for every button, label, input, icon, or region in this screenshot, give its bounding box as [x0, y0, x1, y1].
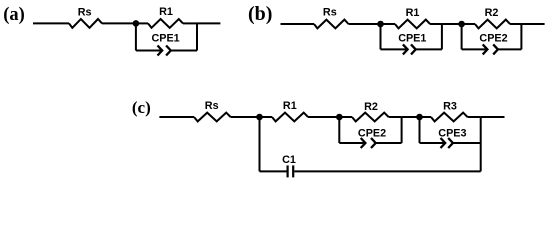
resistor R1 [395, 20, 430, 29]
CPE CPE1 [158, 46, 171, 56]
svg-text:R3: R3 [443, 101, 457, 113]
wire [339, 142, 363, 144]
node junction [416, 114, 423, 121]
wire [402, 116, 420, 118]
wire [381, 23, 396, 25]
svg-text:Rs: Rs [323, 7, 337, 19]
wire [349, 23, 381, 25]
svg-text:CPE1: CPE1 [398, 32, 426, 44]
capacitor C1 [287, 165, 289, 177]
resistor R1 [148, 19, 183, 28]
wire [339, 116, 352, 118]
svg-text:Rs: Rs [78, 7, 92, 19]
CPE CPE2 [361, 138, 376, 148]
wire [480, 117, 482, 171]
wire [136, 22, 148, 24]
wire [338, 117, 340, 143]
wire [521, 23, 544, 25]
wire [462, 48, 486, 50]
svg-text:Rs: Rs [205, 100, 219, 112]
wire [196, 23, 198, 50]
svg-text:CPE3: CPE3 [438, 128, 466, 140]
wire [442, 23, 462, 25]
CPE CPE2 [483, 44, 498, 54]
wire [381, 48, 407, 50]
svg-text:CPE2: CPE2 [358, 127, 386, 139]
wire [430, 23, 442, 25]
wire [281, 23, 315, 25]
wire [231, 116, 260, 118]
svg-text:R1: R1 [406, 7, 420, 19]
wire [376, 142, 402, 144]
resistor Rs [194, 113, 231, 122]
resistor R2 [475, 20, 510, 29]
wire [102, 22, 136, 24]
resistor Rs [69, 19, 102, 28]
wire [260, 170, 287, 172]
wire [498, 48, 521, 50]
svg-text:R2: R2 [485, 7, 499, 19]
wire [260, 116, 273, 118]
wire [389, 116, 402, 118]
svg-text:CPE1: CPE1 [151, 32, 179, 44]
wire [380, 24, 382, 49]
CPE CPE1 [403, 44, 416, 54]
wire [308, 116, 339, 118]
CPE CPE3 [441, 138, 453, 148]
svg-text:(b): (b) [248, 3, 272, 25]
svg-text:R2: R2 [364, 101, 378, 113]
wire [420, 142, 444, 144]
node junction [458, 21, 465, 28]
wire [441, 24, 443, 49]
wire [159, 116, 194, 118]
resistor R1 [272, 113, 308, 122]
wire [401, 117, 403, 143]
wire [420, 116, 432, 118]
node junction [336, 114, 343, 121]
svg-text:C1: C1 [282, 154, 296, 166]
svg-text:CPE2: CPE2 [479, 32, 507, 44]
wire [136, 50, 161, 52]
wire [520, 24, 522, 49]
wire [510, 23, 521, 25]
wire [135, 23, 137, 50]
node junction [256, 114, 263, 121]
wire [468, 116, 481, 118]
wire [259, 117, 261, 171]
wire [481, 116, 505, 118]
wire [294, 170, 480, 172]
node junction [377, 21, 384, 28]
wire [33, 22, 69, 24]
wire [462, 23, 475, 25]
svg-text:R1: R1 [283, 100, 297, 112]
resistor R2 [352, 113, 389, 122]
wire [183, 22, 197, 24]
wire [453, 142, 480, 144]
wire [416, 48, 442, 50]
wire [419, 117, 421, 143]
node junction [133, 20, 140, 27]
resistor R3 [431, 113, 468, 122]
svg-text:(a): (a) [3, 5, 25, 25]
wire [461, 24, 463, 49]
svg-text:R1: R1 [159, 6, 173, 18]
resistor Rs [314, 20, 349, 29]
wire [197, 22, 220, 24]
svg-text:(c): (c) [132, 98, 151, 117]
wire [171, 50, 197, 52]
